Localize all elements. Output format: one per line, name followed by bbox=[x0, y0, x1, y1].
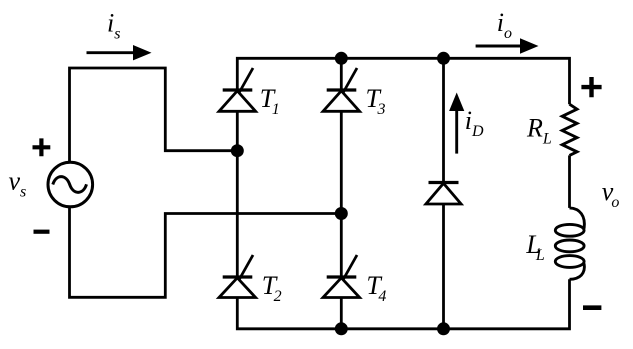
wire diode leg top bbox=[442, 58, 445, 182]
wire load between resistor and inductor bbox=[568, 155, 571, 208]
thyristor T1 bbox=[219, 68, 256, 111]
wire diode leg bottom bbox=[442, 204, 445, 329]
arrow io bbox=[476, 38, 539, 53]
inductor LL bbox=[555, 208, 584, 279]
junction dot top middle leg bbox=[335, 52, 348, 65]
minus sign at source bbox=[34, 230, 50, 234]
plus sign at source bbox=[33, 138, 51, 156]
thyristor T3 bbox=[323, 68, 360, 111]
wire top rail bbox=[237, 58, 569, 104]
wire middle leg T3 to T4 bbox=[340, 111, 343, 277]
thyristor T4 bbox=[323, 255, 360, 298]
minus sign at load bbox=[583, 305, 601, 310]
wire left leg T1 to T2 bbox=[236, 111, 239, 277]
AC source Vs circle bbox=[48, 162, 93, 207]
junction dot bottom middle leg bbox=[335, 322, 348, 335]
wire bottom rail bbox=[237, 279, 569, 329]
resistor RL bbox=[562, 104, 577, 155]
wire source minus lead to node B bbox=[70, 208, 342, 297]
node B junction dot bbox=[335, 207, 348, 220]
wire middle leg bottom bbox=[340, 298, 343, 329]
wire middle leg top bbox=[340, 58, 343, 90]
arrow is bbox=[87, 45, 152, 60]
AC source sine symbol bbox=[53, 177, 87, 193]
junction dot bottom diode leg bbox=[437, 322, 450, 335]
node A junction dot bbox=[231, 144, 244, 157]
plus sign at load bbox=[581, 77, 601, 97]
junction dot top diode leg bbox=[437, 52, 450, 65]
arrow iD bbox=[449, 93, 464, 154]
freewheeling diode bbox=[426, 183, 461, 205]
thyristor T2 bbox=[219, 255, 256, 298]
wire source plus lead to node A bbox=[70, 68, 238, 162]
